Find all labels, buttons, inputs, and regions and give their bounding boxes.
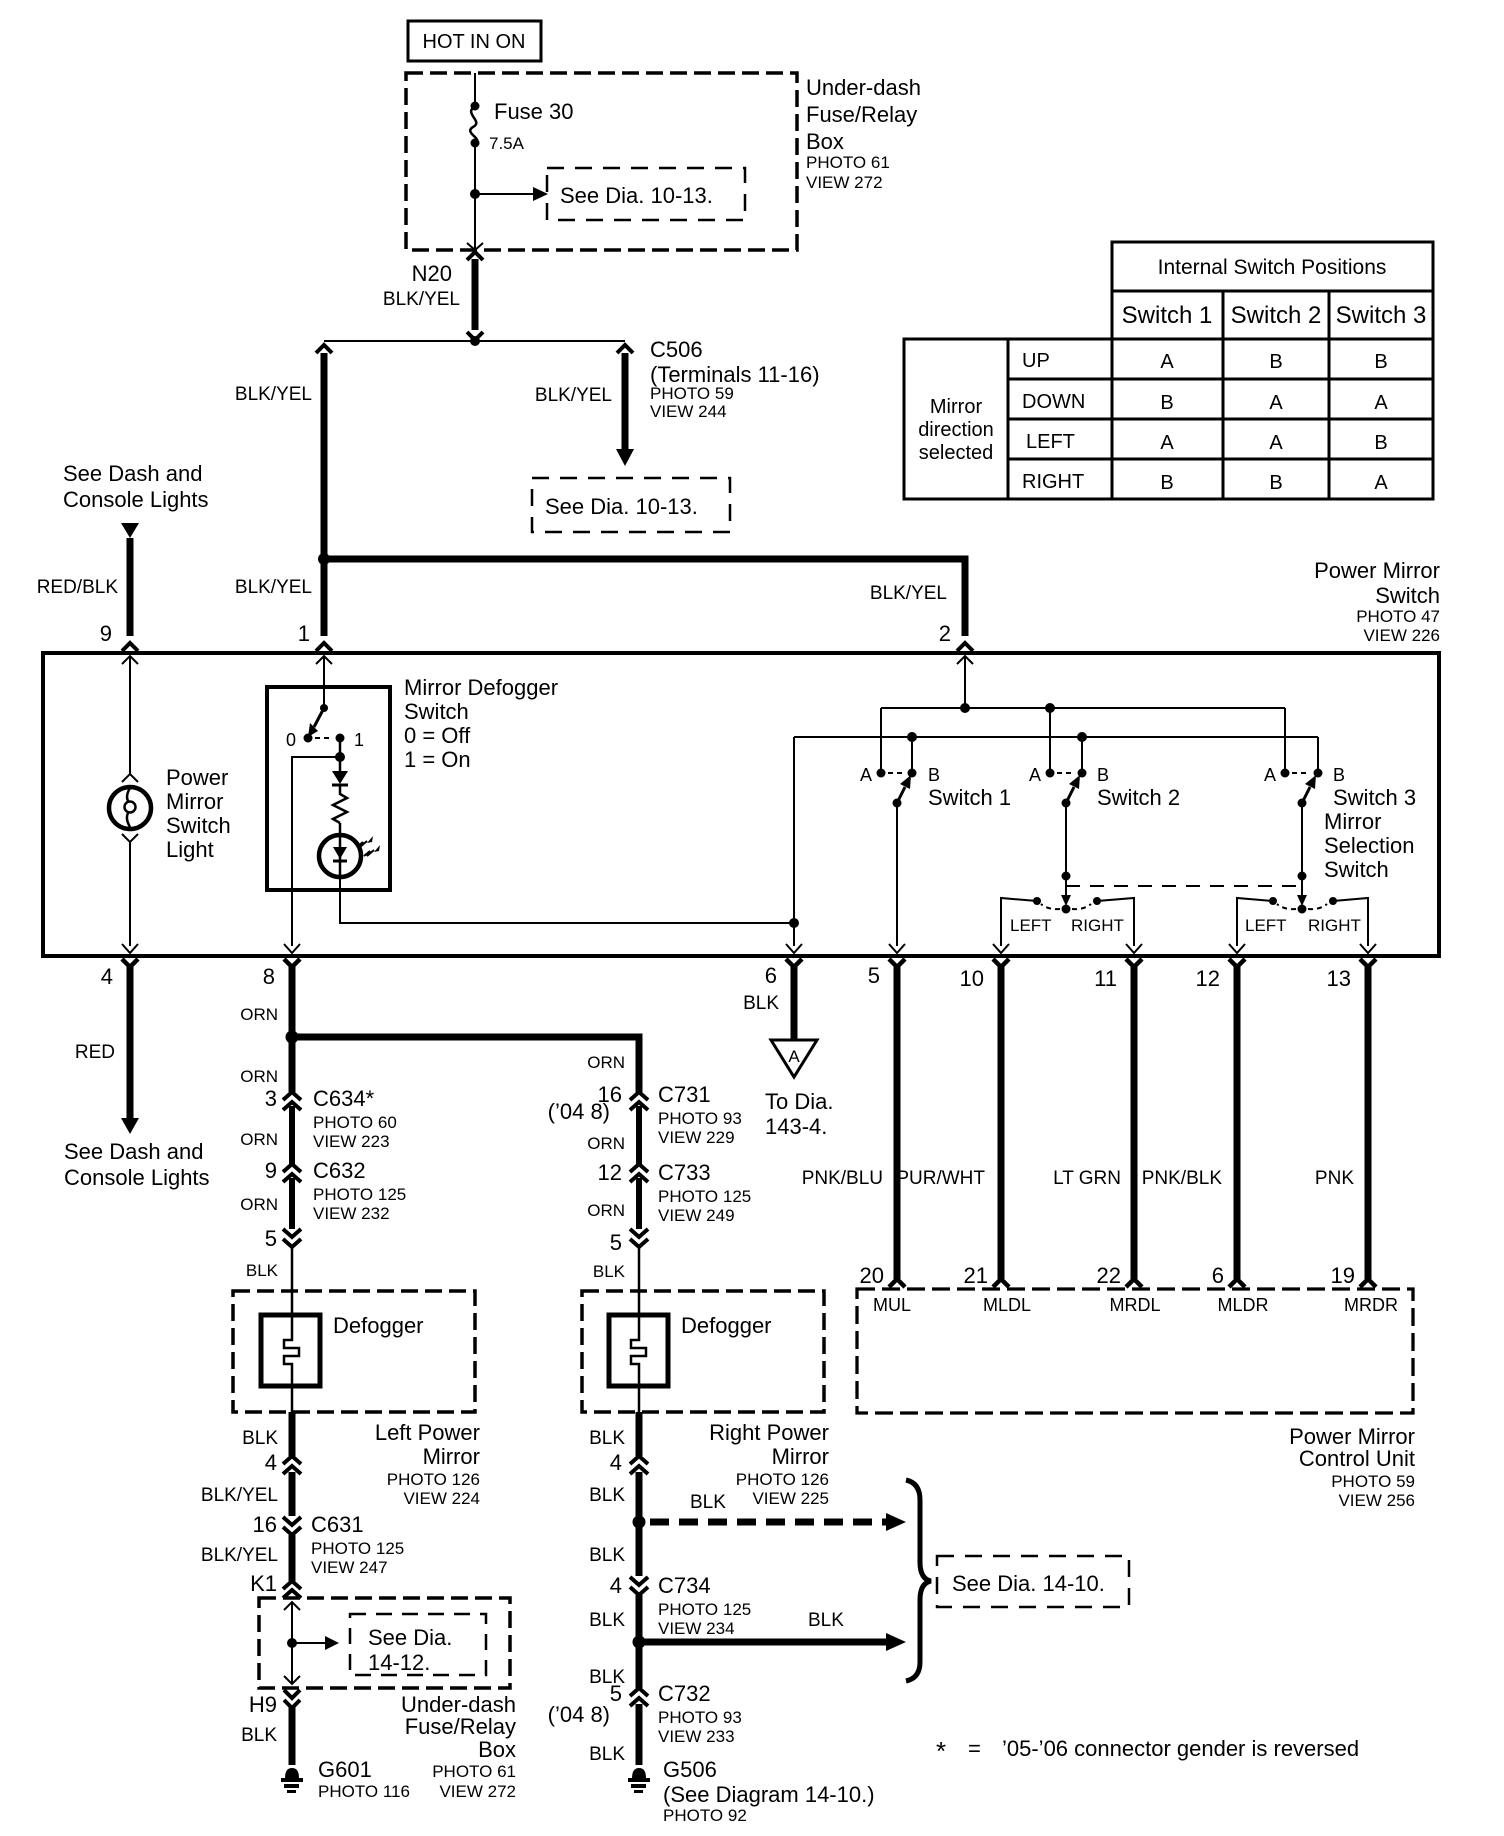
contact gap dashes — [315, 737, 333, 739]
svg-text:BLK: BLK — [589, 1428, 625, 1449]
pin 9 inner arrow — [122, 656, 138, 664]
selector 2 labels — [1245, 916, 1361, 935]
fuse F30 wire top — [474, 73, 476, 104]
connector chevron right splice — [617, 345, 633, 353]
connector C734 — [630, 1577, 648, 1642]
pin 10 inner arrow — [993, 944, 1009, 953]
pin 12 stub to control unit pin 6 — [1229, 959, 1245, 1287]
arrow to see dia 14-12 — [292, 1636, 339, 1650]
svg-text:PNK: PNK — [1315, 1168, 1354, 1189]
power mirror control unit box (dashed) — [857, 1289, 1413, 1413]
connector C634 — [283, 1092, 301, 1164]
svg-text:PNK/BLK: PNK/BLK — [1142, 1168, 1223, 1189]
svg-text:BLK: BLK — [743, 993, 779, 1014]
connector C631 — [283, 1517, 301, 1581]
see dash and console lights (top) label — [63, 461, 209, 512]
svg-text:PHOTO 60: PHOTO 60 — [313, 1113, 397, 1132]
C733 labels — [598, 1160, 752, 1225]
footnote — [936, 1736, 1359, 1766]
ORN labels left chain — [240, 1005, 278, 1280]
svg-text:C731: C731 — [658, 1082, 711, 1107]
svg-text:Fuse 30: Fuse 30 — [494, 99, 574, 124]
svg-text:DOWN: DOWN — [1022, 391, 1085, 413]
svg-text:A: A — [1160, 432, 1174, 454]
node rail A switch2 — [1045, 703, 1055, 713]
svg-text:11: 11 — [1094, 966, 1117, 991]
defogger switch lever — [308, 704, 328, 737]
to dia 143-4 label — [765, 1089, 833, 1139]
svg-text:G506: G506 — [663, 1757, 717, 1782]
svg-text:BLK: BLK — [589, 1485, 625, 1506]
svg-text:PHOTO 125: PHOTO 125 — [658, 1600, 751, 1619]
C631 labels — [253, 1512, 405, 1577]
svg-text:B: B — [1374, 351, 1387, 373]
svg-text:VIEW 224: VIEW 224 — [403, 1489, 480, 1508]
svg-text:2: 2 — [939, 621, 951, 646]
brace to see dia 14-10 — [906, 1480, 931, 1681]
power mirror control unit label — [1289, 1424, 1415, 1510]
svg-text:MUL: MUL — [873, 1295, 911, 1315]
svg-text:BLK/YEL: BLK/YEL — [235, 577, 312, 598]
svg-text:*: * — [936, 1736, 946, 1766]
switch 3 — [1281, 769, 1323, 808]
connector 4 left mirror — [283, 1456, 301, 1516]
svg-text:B: B — [1269, 351, 1282, 373]
svg-text:1 = On: 1 = On — [404, 747, 471, 772]
svg-text:Switch: Switch — [166, 813, 231, 838]
svg-text:9: 9 — [100, 621, 112, 646]
svg-text:VIEW 229: VIEW 229 — [658, 1128, 735, 1147]
switch 1 — [877, 769, 917, 808]
svg-text:Power Mirror: Power Mirror — [1314, 558, 1440, 583]
svg-text:B: B — [1160, 392, 1173, 414]
svg-text:14-12.: 14-12. — [368, 1650, 430, 1675]
connector chevron pin 9 — [122, 643, 138, 651]
svg-text:Under-dash: Under-dash — [806, 75, 921, 100]
svg-text:C631: C631 — [311, 1512, 364, 1537]
svg-text:13: 13 — [1327, 966, 1351, 991]
svg-text:VIEW 244: VIEW 244 — [650, 402, 727, 421]
connector 4 right mirror — [630, 1456, 648, 1576]
right defogger wire out — [638, 1386, 641, 1412]
svg-text:B: B — [1374, 432, 1387, 454]
svg-text:BLK/YEL: BLK/YEL — [535, 385, 612, 406]
svg-text:PHOTO 61: PHOTO 61 — [432, 1762, 516, 1781]
svg-text:VIEW 249: VIEW 249 — [658, 1206, 735, 1225]
selector 2 moving contact arrow — [1297, 895, 1307, 906]
junction LED bus to pin6 — [789, 918, 799, 928]
svg-text:12: 12 — [598, 1160, 622, 1185]
svg-text:4: 4 — [610, 1573, 622, 1598]
svg-text:3: 3 — [265, 1086, 277, 1111]
svg-text:Selection: Selection — [1324, 833, 1415, 858]
svg-text:MLDR: MLDR — [1217, 1295, 1268, 1315]
svg-text:BLK/YEL: BLK/YEL — [201, 1485, 278, 1506]
pin 2 inner arrow — [957, 656, 973, 664]
svg-text:A: A — [1269, 392, 1283, 414]
wire legs to contacts — [881, 708, 1318, 770]
svg-text:PNK/BLU: PNK/BLU — [802, 1168, 883, 1189]
connector C632 — [283, 1164, 301, 1229]
svg-text:PHOTO 126: PHOTO 126 — [387, 1470, 480, 1489]
pin 6 stub — [786, 959, 802, 1039]
svg-text:A: A — [788, 1047, 800, 1066]
selector 1 left contact — [1033, 897, 1041, 905]
left power mirror label — [375, 1420, 480, 1508]
svg-text:A: A — [860, 765, 872, 785]
ground G601 — [281, 1768, 303, 1793]
svg-text:BLK/YEL: BLK/YEL — [201, 1545, 278, 1566]
svg-text:ORN: ORN — [240, 1067, 278, 1086]
svg-text:19: 19 — [1331, 1263, 1355, 1288]
svg-text:6: 6 — [1212, 1263, 1224, 1288]
switch 3 labels — [1264, 765, 1416, 882]
svg-text:BLK/YEL: BLK/YEL — [870, 583, 947, 604]
node rail B switch2 — [1077, 732, 1087, 742]
connector K1 — [283, 1581, 301, 1598]
wire pin6 leg — [793, 737, 795, 946]
svg-text:PHOTO 116: PHOTO 116 — [318, 1782, 410, 1801]
svg-text:PHOTO 93: PHOTO 93 — [658, 1109, 742, 1128]
arrow to See Dia 10-13 lower — [616, 449, 634, 466]
svg-text:BLK: BLK — [589, 1744, 625, 1765]
wire: horizontal splice line — [324, 340, 625, 342]
svg-text:RED: RED — [75, 1042, 115, 1063]
svg-text:BLK: BLK — [246, 1261, 279, 1280]
wire BLK below left defogger — [289, 1412, 296, 1456]
connector chevron pin 2 — [957, 643, 973, 651]
svg-text:A: A — [1029, 765, 1041, 785]
svg-text:Mirror: Mirror — [1324, 809, 1381, 834]
svg-text:=: = — [968, 1736, 981, 1761]
svg-text:Box: Box — [806, 129, 844, 154]
svg-text:C632: C632 — [313, 1158, 366, 1183]
pin 11 inner arrow — [1126, 944, 1142, 953]
svg-text:H9: H9 — [249, 1692, 277, 1717]
svg-text:Box: Box — [478, 1737, 516, 1762]
see dia 14-12 box — [350, 1614, 486, 1675]
svg-text:Mirror Defogger: Mirror Defogger — [404, 675, 558, 700]
fuse 30 symbol — [470, 102, 479, 148]
svg-text:N20: N20 — [412, 261, 452, 286]
svg-text:Left Power: Left Power — [375, 1420, 480, 1445]
svg-text:Console Lights: Console Lights — [63, 487, 209, 512]
svg-text:PHOTO 92: PHOTO 92 — [663, 1806, 747, 1825]
svg-text:MRDR: MRDR — [1344, 1295, 1398, 1315]
pin 5 inner arrow — [889, 944, 905, 953]
svg-text:C732: C732 — [658, 1681, 711, 1706]
pin 6 inner arrow — [786, 944, 802, 953]
pin 13 inner arrow — [1360, 944, 1376, 953]
connector N20 chevrons at box exit — [467, 243, 483, 250]
svg-text:K1: K1 — [250, 1571, 277, 1596]
wire below solid junction — [636, 1642, 643, 1688]
svg-text:MRDL: MRDL — [1109, 1295, 1160, 1315]
wire BLK/YEL left branch down — [321, 353, 328, 559]
selector 1 pivot — [1062, 905, 1071, 914]
wire: main BLK/YEL bus to pin 2 — [324, 559, 965, 636]
svg-text:B: B — [928, 765, 940, 785]
svg-text:22: 22 — [1097, 1263, 1121, 1288]
svg-text:Switch 1: Switch 1 — [1122, 302, 1213, 329]
wire RED/BLK pin 9 — [127, 538, 134, 636]
connector C732 — [630, 1688, 648, 1765]
svg-text:RIGHT: RIGHT — [1308, 916, 1361, 935]
svg-text:4: 4 — [265, 1450, 277, 1475]
See Dia. 10-13 box (lower) — [532, 478, 730, 532]
svg-text:Internal Switch Positions: Internal Switch Positions — [1158, 256, 1387, 279]
right defogger element — [631, 1315, 646, 1386]
diode — [332, 757, 348, 785]
wire lamp bottom — [129, 842, 131, 946]
junction at N20 splice — [470, 336, 480, 346]
svg-text:PHOTO 59: PHOTO 59 — [1331, 1472, 1415, 1491]
wire left throw to pin 12 — [1237, 898, 1273, 946]
wire switch2 to selector — [1065, 803, 1067, 896]
svg-text:PHOTO 47: PHOTO 47 — [1356, 607, 1440, 626]
svg-text:BLK: BLK — [593, 1262, 626, 1281]
svg-text:10: 10 — [960, 966, 984, 991]
svg-text:Control Unit: Control Unit — [1299, 1446, 1415, 1471]
selector 1 labels — [1010, 916, 1124, 935]
wire dashed BLK arrow to 14-10 — [650, 1513, 906, 1531]
svg-text:4: 4 — [101, 964, 113, 989]
junction to see dia 14-12 — [287, 1638, 297, 1648]
svg-text:C506: C506 — [650, 337, 703, 362]
wire inside fuse box — [284, 1602, 300, 1684]
svg-text:BLK/YEL: BLK/YEL — [383, 289, 460, 310]
svg-text:1: 1 — [298, 621, 310, 646]
internal switch positions table — [904, 242, 1433, 499]
svg-text:BLK: BLK — [241, 1725, 277, 1746]
svg-text:(See Diagram 14-10.): (See Diagram 14-10.) — [663, 1782, 875, 1807]
svg-text:PHOTO 125: PHOTO 125 — [313, 1185, 406, 1204]
svg-text:Fuse/Relay: Fuse/Relay — [405, 1714, 516, 1739]
svg-text:direction: direction — [918, 419, 994, 441]
selector 2 pivot — [1298, 905, 1307, 914]
left defogger element box — [261, 1315, 320, 1386]
svg-text:To Dia.: To Dia. — [765, 1089, 833, 1114]
wire rail B — [794, 736, 1318, 738]
fuse wire lower — [474, 143, 476, 250]
LED indicator — [319, 823, 361, 877]
svg-text:See Dia. 10-13.: See Dia. 10-13. — [545, 494, 698, 519]
wire pin1 drop — [321, 559, 328, 636]
pin 10 stub to control unit pin 21 — [993, 959, 1009, 1287]
G506 labels — [663, 1757, 875, 1825]
svg-text:4: 4 — [610, 1450, 622, 1475]
arrow to dash lights bottom — [121, 1118, 139, 1134]
svg-text:B: B — [1097, 765, 1109, 785]
svg-text:VIEW 223: VIEW 223 — [313, 1132, 390, 1151]
lamp label — [166, 765, 231, 862]
svg-text:Defogger: Defogger — [333, 1313, 424, 1338]
wire rail A — [881, 707, 1285, 709]
wire BLK below right defogger — [636, 1412, 643, 1456]
pin 8 stub — [284, 959, 300, 1092]
power mirror switch label — [1314, 558, 1440, 645]
svg-text:5: 5 — [265, 1226, 277, 1251]
node selector 1 — [1062, 872, 1071, 881]
svg-text:6: 6 — [765, 963, 777, 988]
svg-text:BLK: BLK — [242, 1428, 278, 1449]
svg-text:Switch 2: Switch 2 — [1097, 785, 1180, 810]
svg-text:Mirror: Mirror — [772, 1444, 829, 1469]
junction ORN split — [286, 1031, 299, 1044]
svg-text:Switch: Switch — [404, 699, 469, 724]
pin 11 stub to control unit pin 22 — [1126, 959, 1142, 1287]
svg-text:A: A — [1264, 765, 1276, 785]
svg-text:B: B — [1160, 472, 1173, 494]
see dash and console lights (bottom) label — [64, 1139, 210, 1190]
C734 labels — [610, 1573, 751, 1638]
N20 label — [383, 261, 460, 310]
connector symbol A triangle — [771, 1040, 817, 1077]
mirror defogger switch box — [267, 687, 390, 890]
svg-text:C634*: C634* — [313, 1086, 375, 1111]
svg-text:1: 1 — [354, 730, 364, 750]
svg-text:B: B — [1333, 765, 1345, 785]
pin 4 stub — [122, 959, 138, 1120]
pin 8 inner arrow — [284, 944, 300, 953]
wire right throw to pin 13 — [1333, 898, 1368, 946]
svg-text:VIEW 233: VIEW 233 — [658, 1727, 735, 1746]
selector 1 throws dashed — [1041, 904, 1060, 909]
wire C506 branch down — [622, 353, 629, 449]
pin 4 inner arrow — [122, 944, 138, 953]
svg-text:Console Lights: Console Lights — [64, 1165, 210, 1190]
contact 0 — [304, 734, 313, 743]
selector 1 right contact — [1093, 897, 1101, 905]
svg-text:See Dash and: See Dash and — [64, 1139, 203, 1164]
svg-text:PHOTO 61: PHOTO 61 — [806, 153, 890, 172]
svg-text:See Dash and: See Dash and — [63, 461, 202, 486]
wire lamp top — [129, 656, 131, 775]
svg-text:A: A — [1374, 472, 1388, 494]
svg-text:UP: UP — [1022, 350, 1050, 372]
svg-text:PHOTO 125: PHOTO 125 — [311, 1539, 404, 1558]
svg-text:9: 9 — [265, 1158, 277, 1183]
svg-text:VIEW 226: VIEW 226 — [1363, 626, 1440, 645]
C634 labels — [265, 1086, 397, 1151]
wire node to pin 8 leg — [292, 757, 340, 946]
svg-text:Switch 3: Switch 3 — [1333, 785, 1416, 810]
svg-text:See Dia.: See Dia. — [368, 1625, 452, 1650]
svg-text:ORN: ORN — [240, 1195, 278, 1214]
svg-text:Defogger: Defogger — [681, 1313, 772, 1338]
lamp: power mirror switch light — [109, 787, 151, 829]
svg-text:ORN: ORN — [587, 1053, 625, 1072]
svg-text:PHOTO 126: PHOTO 126 — [736, 1470, 829, 1489]
junction dashed BLK branch — [633, 1516, 646, 1529]
node rail B switch1 — [907, 732, 917, 742]
svg-text:LEFT: LEFT — [1026, 431, 1075, 453]
svg-text:PHOTO 59: PHOTO 59 — [650, 384, 734, 403]
svg-text:HOT IN ON: HOT IN ON — [423, 31, 526, 53]
switch 2 — [1046, 769, 1087, 808]
labels 0 and 1 — [286, 730, 364, 750]
svg-text:VIEW 256: VIEW 256 — [1338, 1491, 1415, 1510]
lamp terminal chevron top — [122, 774, 138, 782]
svg-text:Switch 1: Switch 1 — [928, 785, 1011, 810]
under-dash box lower label — [401, 1692, 516, 1801]
contact 1 — [336, 734, 345, 743]
connector chevron pin 1 — [316, 643, 332, 651]
junction at bus left — [318, 553, 330, 565]
connector H9 — [284, 1690, 300, 1765]
svg-text:G601: G601 — [318, 1757, 372, 1782]
svg-text:A: A — [1269, 432, 1283, 454]
wire ORN branch to right mirror — [292, 1037, 639, 1092]
connector C733 — [630, 1164, 648, 1229]
wire switch3 to selector 2 — [1301, 803, 1303, 896]
node N20 wire — [467, 252, 483, 340]
svg-text:VIEW 232: VIEW 232 — [313, 1204, 390, 1223]
See Dia. 10-13 box (upper) — [547, 168, 745, 220]
HOT IN ON box — [408, 21, 541, 61]
svg-text:BLK: BLK — [589, 1545, 625, 1566]
right power mirror label — [709, 1420, 829, 1508]
connector 5 right — [630, 1229, 648, 1315]
mirror defogger switch label — [404, 675, 558, 772]
svg-text:A: A — [1374, 392, 1388, 414]
junction in defogger switch — [335, 752, 345, 762]
svg-text:ORN: ORN — [587, 1134, 625, 1153]
svg-text:Switch: Switch — [1375, 583, 1440, 608]
svg-text:BLK: BLK — [690, 1492, 726, 1513]
svg-text:LEFT: LEFT — [1010, 916, 1052, 935]
wire solid BLK arrow to 14-10 — [639, 1633, 906, 1651]
svg-text:143-4.: 143-4. — [765, 1114, 827, 1139]
switch 1 labels — [860, 765, 1011, 810]
right defogger dashed box — [582, 1291, 824, 1412]
ORN labels right chain — [587, 1053, 625, 1281]
under-dash fuse/relay box lower (dashed) — [259, 1598, 510, 1688]
svg-text:VIEW 272: VIEW 272 — [439, 1782, 516, 1801]
svg-text:selected: selected — [919, 442, 994, 464]
svg-text:VIEW 247: VIEW 247 — [311, 1558, 388, 1577]
under-dash fuse/relay box (dashed) — [406, 73, 797, 250]
power mirror switch box — [43, 653, 1439, 956]
svg-text:21: 21 — [964, 1263, 988, 1288]
svg-text:PUR/WHT: PUR/WHT — [896, 1168, 985, 1189]
node rail A feed — [960, 703, 970, 713]
lamp terminal chevron bottom — [122, 834, 138, 842]
pin 12 inner arrow — [1229, 944, 1245, 953]
G601 labels — [318, 1757, 410, 1801]
selector 2 left contact — [1269, 897, 1277, 905]
connector chevron left splice — [316, 345, 332, 353]
wire to defogger switch — [323, 656, 325, 706]
svg-text:Mirror: Mirror — [930, 396, 983, 418]
right defogger element box — [609, 1315, 668, 1386]
svg-text:See Dia. 14-10.: See Dia. 14-10. — [952, 1571, 1105, 1596]
svg-text:VIEW 272: VIEW 272 — [806, 173, 883, 192]
svg-text:Mirror: Mirror — [423, 1444, 480, 1469]
svg-text:12: 12 — [1196, 966, 1220, 991]
svg-text:BLK: BLK — [808, 1610, 844, 1631]
wire arrow to See Dia. 10-13 — [475, 187, 548, 201]
pin 1 inner arrow — [316, 656, 332, 664]
svg-text:20: 20 — [860, 1263, 884, 1288]
svg-text:Right Power: Right Power — [709, 1420, 829, 1445]
node selector 2 — [1298, 872, 1307, 881]
connector C506 label — [650, 337, 820, 421]
svg-text:16: 16 — [253, 1512, 277, 1537]
svg-text:PHOTO 93: PHOTO 93 — [658, 1708, 742, 1727]
selector 2 throws dashed — [1277, 904, 1296, 909]
svg-text:RIGHT: RIGHT — [1071, 916, 1124, 935]
